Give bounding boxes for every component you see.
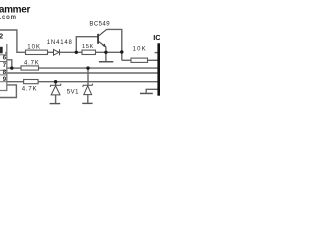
- wire pin2 net: DB9 pin2 to R1: [0, 30, 26, 52]
- svg-text:BC549: BC549: [89, 21, 110, 27]
- connector CN1 pin dividers: [0, 55, 7, 82]
- wire R2 to IC1 (net with zener D3 tap): [39, 67, 159, 69]
- wire D1 cathode to node A: [60, 51, 82, 53]
- ground GND3 below zener D3: [82, 103, 92, 104]
- ground GND2 below zener D2: [50, 103, 61, 104]
- wire R3 to IC1 (net with zener D2 tap): [38, 81, 158, 83]
- resistor R1 10K body: [26, 50, 48, 54]
- wire IC1 stub pin: [155, 52, 159, 54]
- resistor R5 15K body: [82, 50, 96, 54]
- svg-text:.com: .com: [0, 15, 17, 21]
- resistor R4 10K body: [131, 58, 148, 62]
- wire collector top run: [106, 29, 121, 60]
- node A junction dot: [75, 51, 78, 54]
- wire R1 to D1: [48, 51, 54, 53]
- wire node B to R4: [122, 59, 131, 61]
- ground GND1 at emitter: [99, 61, 113, 63]
- diode D1 1N4148: [54, 49, 60, 55]
- svg-text:10K: 10K: [133, 46, 147, 52]
- wire pin6 jog down to pin7 net: [7, 60, 12, 68]
- node emitter junction dot: [104, 51, 107, 54]
- node zener D3 tap dot: [86, 66, 89, 69]
- node pin6/pin7 junction dot: [10, 66, 13, 69]
- IC1 socket black bar: [157, 43, 160, 95]
- ground GND4 at IC1 pin: [140, 93, 153, 95]
- connector CN1 DB9 pin column edge: [0, 44, 7, 91]
- wire zener D2 bottom lead: [55, 95, 57, 103]
- transistor Q1 collector: [99, 29, 107, 35]
- svg-text:2: 2: [0, 31, 3, 40]
- wire emitter vertical to ground: [105, 47, 107, 62]
- wire zener D3 bottom lead: [87, 95, 89, 103]
- wire 15K to emitter node and collector node: [96, 51, 122, 53]
- zener D3 symbol: [83, 84, 93, 95]
- node collector junction dot: [120, 50, 123, 53]
- zener D2 5V1 symbol: [50, 84, 61, 95]
- transistor Q1 emitter with arrow: [99, 42, 106, 47]
- svg-text:4.7K: 4.7K: [22, 86, 38, 92]
- svg-text:4.7K: 4.7K: [24, 60, 40, 66]
- wire R4 to IC1: [148, 59, 159, 61]
- wire pin7 to R2: [7, 67, 21, 69]
- wire IC1 ground pin: [146, 89, 158, 92]
- resistor R3 4.7K body: [24, 80, 38, 84]
- svg-text:1N4148: 1N4148: [47, 40, 73, 46]
- wire pin8 bus to IC1: [7, 72, 158, 74]
- svg-text:IC1: IC1: [153, 33, 160, 42]
- wire pin5 ground loop to left edge: [0, 85, 16, 98]
- svg-text:10K: 10K: [27, 44, 41, 50]
- wire zener D2 top lead: [55, 82, 57, 86]
- svg-text:15K: 15K: [82, 44, 94, 50]
- wire zener D3 top lead: [87, 68, 89, 85]
- node zener D2 tap dot: [54, 80, 57, 83]
- connector pin number partial glyph: [0, 47, 3, 54]
- transistor Q1 base bar: [97, 34, 99, 44]
- svg-text:5V1: 5V1: [67, 89, 79, 95]
- wire pin9 to R3: [7, 81, 24, 83]
- resistor R2 4.7K body: [21, 66, 39, 70]
- wire node A up to base of Q1: [76, 37, 97, 53]
